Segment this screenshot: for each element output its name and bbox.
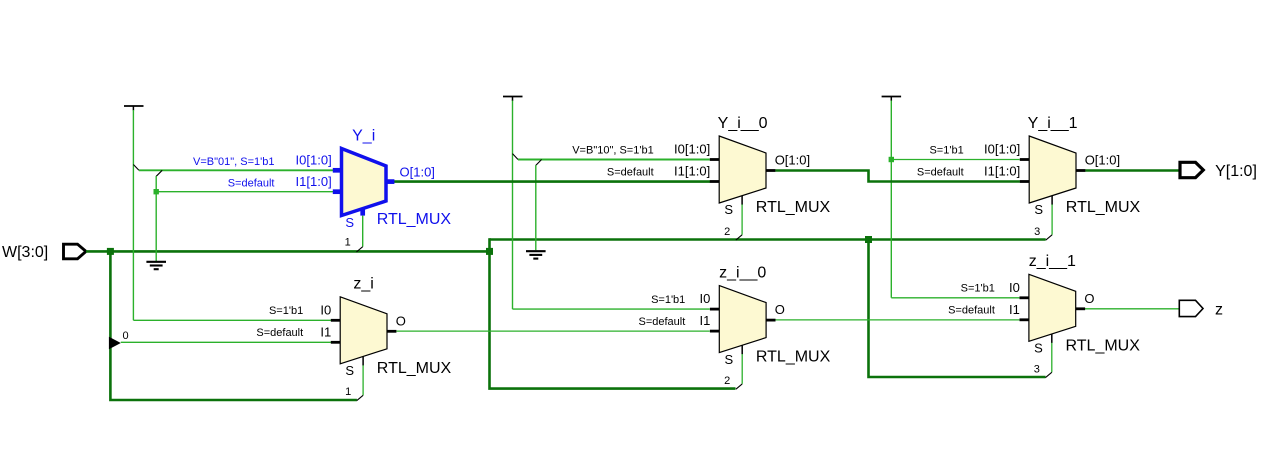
svg-text:S=default: S=default <box>256 327 303 339</box>
wire const bus to Y_i__0 I0 pin <box>518 159 710 161</box>
wire W bus segment B3 (upper run to Y_i__1 tap) <box>490 238 1046 241</box>
svg-text:I0[1:0]: I0[1:0] <box>674 142 710 157</box>
wire z_i__0 S select <box>741 354 743 384</box>
wire const column3 corner to z_i__1 I0 pin <box>891 297 1019 299</box>
wire const column3 vertical <box>890 101 892 298</box>
svg-text:Y_i__0: Y_i__0 <box>718 115 768 132</box>
svg-text:O: O <box>1084 291 1094 306</box>
svg-text:2: 2 <box>724 375 730 387</box>
wire Y_i__1 O[1:0] to port Y <box>1085 169 1179 172</box>
wire z_i S select <box>362 365 364 395</box>
mux z_i__1 pin O stub <box>1076 307 1085 310</box>
wire const to Y_i__1 I0 pin <box>891 159 1019 161</box>
wire z_i__1 S select <box>1051 343 1053 373</box>
wire S=default to Y_i I1 pin <box>156 191 333 193</box>
ground symbol column2 <box>526 251 546 258</box>
mux Y_i pin I0 stub <box>333 168 342 173</box>
mux Y_i__1 body <box>1029 136 1076 203</box>
svg-text:S=1'b1: S=1'b1 <box>961 283 995 295</box>
mux z_i__1 pin S stub <box>1051 334 1053 343</box>
svg-text:V=B"10", S=1'b1: V=B"10", S=1'b1 <box>572 145 653 157</box>
wire const column2 corner to z_i__0 I0 pin <box>513 308 710 310</box>
svg-text:3: 3 <box>1034 226 1040 238</box>
svg-text:I1[1:0]: I1[1:0] <box>296 174 332 189</box>
svg-text:z_i__0: z_i__0 <box>719 264 766 281</box>
wire const column1 vertical <box>132 110 134 320</box>
svg-text:I1: I1 <box>699 313 710 328</box>
wire W bus branch B6 (down-right to z_i__1 S tap) <box>869 240 1046 378</box>
mux Y_i pin O stub <box>386 179 394 184</box>
svg-text:z_i__1: z_i__1 <box>1029 253 1076 270</box>
svg-text:z: z <box>1215 302 1223 319</box>
svg-text:I1[1:0]: I1[1:0] <box>674 164 710 179</box>
junction const column3 at Y_i__1 I0 branch <box>889 157 894 162</box>
svg-text:S: S <box>345 215 354 230</box>
mux z_i__0 pin I0 stub <box>710 308 719 311</box>
svg-text:O: O <box>775 302 785 317</box>
wire W bus jog B2 <box>488 238 491 253</box>
svg-text:RTL_MUX: RTL_MUX <box>1066 337 1141 354</box>
bus tap chamfer Y_i S <box>356 247 362 252</box>
junction on W bus at right branch <box>865 236 872 243</box>
mux z_i pin S stub <box>362 356 364 365</box>
wire const bus to Y_i I0 pin <box>139 169 333 171</box>
svg-text:2: 2 <box>724 226 730 238</box>
svg-text:S: S <box>724 202 733 217</box>
mux z_i__0 body <box>719 286 766 353</box>
svg-text:I0: I0 <box>320 302 331 317</box>
svg-text:S: S <box>345 363 354 378</box>
mux z_i pin I0 stub <box>331 319 340 322</box>
mux Y_i__1 pin I0 stub <box>1020 158 1029 161</box>
mux Y_i pin S stub <box>360 208 365 216</box>
mux z_i__1 pin I0 stub <box>1020 296 1029 299</box>
mux z_i pin O stub <box>387 330 396 333</box>
power symbol T-bar column2 <box>503 97 523 102</box>
svg-text:Y_i__1: Y_i__1 <box>1028 115 1078 132</box>
mux z_i__0 pin S stub <box>741 345 743 354</box>
svg-text:O[1:0]: O[1:0] <box>400 164 435 179</box>
svg-text:S=1'b1: S=1'b1 <box>269 305 303 317</box>
mux z_i__1 pin I1 stub <box>1020 318 1029 321</box>
wire z_i O to z_i__0 I1 <box>397 330 710 332</box>
svg-text:W[3:0]: W[3:0] <box>2 244 48 261</box>
mux Y_i__0 body <box>719 136 766 203</box>
svg-text:S=default: S=default <box>228 177 275 189</box>
junction on W bus at port branch <box>107 248 114 255</box>
svg-text:O[1:0]: O[1:0] <box>1085 153 1120 168</box>
svg-text:I1: I1 <box>1009 302 1020 317</box>
mux Y_i body <box>342 149 387 216</box>
svg-text:1: 1 <box>345 386 351 398</box>
mux Y_i__0 pin I1 stub <box>710 180 719 183</box>
wire ground branch vertical col1 <box>155 176 157 262</box>
wire Y_i O[1:0] to Y_i__0 I1[1:0] <box>394 180 710 183</box>
svg-text:V=B"01", S=1'b1: V=B"01", S=1'b1 <box>193 156 274 168</box>
svg-text:S: S <box>1034 202 1043 217</box>
svg-text:S=default: S=default <box>607 167 654 179</box>
svg-text:I0[1:0]: I0[1:0] <box>296 153 332 168</box>
svg-text:3: 3 <box>1034 363 1040 375</box>
svg-text:S: S <box>1034 341 1043 356</box>
bus tap chamfer z_i__1 S <box>1046 372 1052 377</box>
svg-text:RTL_MUX: RTL_MUX <box>756 349 831 366</box>
svg-text:RTL_MUX: RTL_MUX <box>1066 199 1141 216</box>
junction on ground branch col1 (S=default feed) <box>154 189 159 194</box>
svg-text:RTL_MUX: RTL_MUX <box>756 199 831 216</box>
svg-text:RTL_MUX: RTL_MUX <box>377 211 452 228</box>
bus tap chamfer z_i__0 S <box>736 384 742 389</box>
output port z <box>1179 300 1203 316</box>
mux Y_i__1 pin S stub <box>1051 196 1053 205</box>
bus tap chamfer to Y_i__0 I0 <box>513 154 519 160</box>
svg-text:S: S <box>725 352 734 367</box>
wire W bus segment B1 (port to mid junction) <box>86 250 490 253</box>
junction on W bus at mid branch <box>486 248 493 255</box>
svg-text:0: 0 <box>122 330 128 342</box>
mux Y_i__1 pin I1 stub <box>1020 180 1029 183</box>
wire const column1 corner to z_i I0 pin <box>133 319 331 321</box>
svg-text:I0: I0 <box>699 291 710 306</box>
svg-text:S=default: S=default <box>948 305 995 317</box>
svg-text:S=default: S=default <box>917 167 964 179</box>
mux Y_i__1 pin O stub <box>1076 169 1085 172</box>
wire Y_i S select <box>362 216 364 247</box>
mux z_i__1 body <box>1029 274 1076 341</box>
wire ground branch vertical col2 <box>535 165 537 250</box>
output port Y[1:0] <box>1180 162 1203 177</box>
svg-text:I1: I1 <box>320 324 331 339</box>
power symbol T-bar column3 <box>882 97 902 102</box>
ground symbol column1 <box>146 262 166 269</box>
mux Y_i__0 pin I0 stub <box>710 158 719 161</box>
bus tap chamfer z_i S <box>357 395 363 400</box>
svg-text:I0[1:0]: I0[1:0] <box>984 142 1020 157</box>
svg-text:O[1:0]: O[1:0] <box>775 153 810 168</box>
mux Y_i__0 pin S stub <box>741 196 743 205</box>
wire W[0] to z_i I1 <box>121 341 331 343</box>
power symbol T-bar column1 <box>124 106 144 111</box>
mux z_i body <box>340 297 387 364</box>
svg-text:RTL_MUX: RTL_MUX <box>377 360 452 377</box>
svg-text:Y_i: Y_i <box>352 127 375 144</box>
mux z_i__0 pin O stub <box>766 319 775 322</box>
svg-text:S=1'b1: S=1'b1 <box>651 294 685 306</box>
svg-text:z_i: z_i <box>353 276 373 293</box>
svg-text:S=default: S=default <box>639 316 686 328</box>
bus tap chamfer to Y_i I0 <box>133 165 139 171</box>
wire z_i__0 O to z_i__1 I1 <box>775 319 1019 321</box>
mux z_i pin I1 stub <box>331 341 340 344</box>
mux Y_i pin I1 stub <box>333 189 342 194</box>
bus tap W[0] triangle <box>109 337 121 349</box>
svg-text:I0: I0 <box>1009 280 1020 295</box>
bus tap chamfer Y_i__0 S <box>736 235 742 240</box>
bus tap chamfer Y_i__1 S <box>1046 235 1052 240</box>
mux Y_i__0 pin O stub <box>766 169 775 172</box>
svg-text:O: O <box>396 313 406 328</box>
svg-text:Y[1:0]: Y[1:0] <box>1215 163 1257 180</box>
wire Y_i__1 S select <box>1051 204 1053 234</box>
input port W[3:0] <box>64 244 87 259</box>
wire Y_i__0 O[1:0] to Y_i__1 I1[1:0] <box>775 171 1020 182</box>
wire W bus branch B5 (down-mid to z_i__0 S tap) <box>490 251 736 388</box>
svg-text:S=1'b1: S=1'b1 <box>929 145 963 157</box>
svg-text:I1[1:0]: I1[1:0] <box>984 164 1020 179</box>
bus tap chamfer to ground branch col2 <box>536 160 542 166</box>
wire z_i__1 O to port z <box>1085 308 1180 310</box>
bus tap chamfer to ground branch col1 <box>156 170 162 176</box>
wire Y_i__0 S select <box>741 204 743 234</box>
svg-text:1: 1 <box>345 236 351 248</box>
wire W bus branch B4 (down-left to z_i S tap) <box>110 251 357 400</box>
mux z_i__0 pin I1 stub <box>710 330 719 333</box>
wire const column2 vertical <box>512 101 514 310</box>
